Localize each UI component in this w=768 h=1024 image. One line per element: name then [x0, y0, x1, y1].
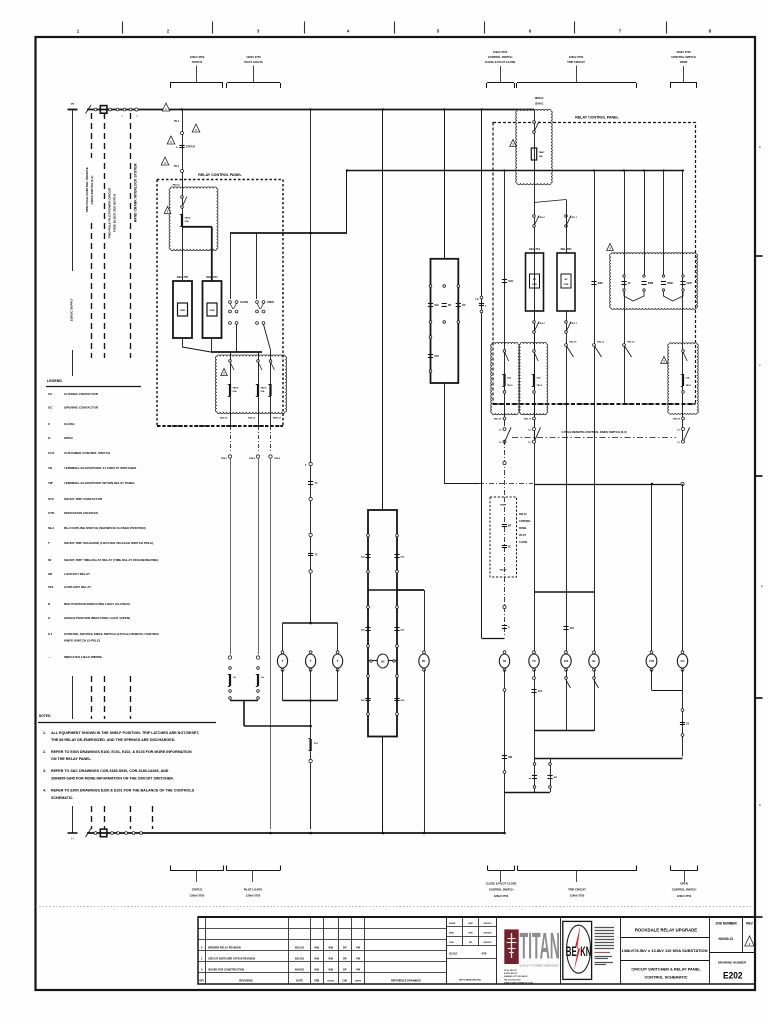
- legend underline: [46, 386, 141, 388]
- svg-text:138kV/78.5kV x 13.8kV 110 MVA: 138kV/78.5kV x 13.8kV 110 MVA SUBSTATION: [622, 949, 708, 953]
- capacitor TC lower: [308, 553, 313, 555]
- TITAN address lines: [504, 970, 533, 985]
- svg-text:DSGN: DSGN: [328, 980, 335, 982]
- svg-text:CTR: CTR: [48, 511, 55, 515]
- svg-text:TC: TC: [532, 659, 536, 663]
- coil blob upper left panel: [169, 187, 218, 251]
- rail y484 solid: [534, 484, 683, 486]
- svg-text:TERMINAL BLOCK/POINT WITHIN RE: TERMINAL BLOCK/POINT WITHIN RELAY PANEL: [64, 481, 135, 485]
- svg-text:10A: 10A: [536, 376, 540, 379]
- svg-text:INDICATES FIELD WIRING: INDICATES FIELD WIRING: [64, 655, 103, 659]
- svg-text:43X: 43X: [564, 659, 569, 663]
- circle blob A: [503, 391, 506, 394]
- fuse TB1/4 10A upper: [181, 214, 183, 226]
- svg-text:CC: CC: [680, 659, 684, 663]
- bus negative y833: [87, 832, 505, 834]
- relay coil RL: [423, 651, 426, 654]
- CCS contact left top: [429, 285, 432, 288]
- junction dots rail y170: [346, 169, 348, 171]
- warning triangle 4: [161, 157, 169, 165]
- svg-text:52/B: 52/B: [687, 282, 692, 285]
- wire drop close contact feed: [230, 233, 232, 299]
- svg-text:NOTES:: NOTES:: [39, 714, 51, 718]
- svg-text:TWO-POLE CONTROL SOURCE: TWO-POLE CONTROL SOURCE: [85, 167, 89, 212]
- svg-text:REFER TO EIXN DRAWINGS E100, E: REFER TO EIXN DRAWINGS E100, E101, E102,…: [51, 750, 192, 754]
- svg-text:ROCKDALE RELAY UPGRADE: ROCKDALE RELAY UPGRADE: [635, 928, 697, 933]
- wire operator box to bus: [382, 737, 384, 834]
- svg-text:TB-4: TB-4: [174, 165, 180, 168]
- svg-text:89M: 89M: [598, 282, 603, 285]
- svg-text:STATUS: STATUS: [192, 888, 203, 892]
- junction dots positive bus: [181, 108, 183, 110]
- contact pair OPEN: [256, 301, 259, 304]
- notes entries: [43, 731, 199, 800]
- terminal 52 down: [503, 689, 506, 692]
- junction x310 top bus: [309, 108, 311, 110]
- svg-text:120VAC: 120VAC: [535, 103, 544, 106]
- CCS contact right top: [457, 285, 460, 288]
- wire blob lower A: [230, 352, 232, 426]
- wire TC down: [534, 670, 536, 732]
- svg-text:OPEN: OPEN: [680, 60, 688, 64]
- contact PB1-C: [533, 215, 536, 218]
- warning triangle aux blob: [607, 244, 614, 251]
- rail y794: [505, 792, 551, 794]
- svg-text:WW: WW: [314, 946, 319, 949]
- svg-text:52X: 52X: [434, 304, 439, 307]
- svg-text:TRIP CIRCUIT: TRIP CIRCUIT: [567, 60, 585, 64]
- svg-text:REVISIONS: REVISIONS: [239, 979, 253, 982]
- svg-text:OPEN: OPEN: [680, 882, 688, 886]
- lamp right drop: [337, 623, 339, 653]
- svg-text:CIRCUIT SWITCHER STATUS REVISI: CIRCUIT SWITCHER STATUS REVISION: [208, 958, 255, 961]
- svg-text:-.-: -.-: [48, 655, 51, 659]
- circle blob C: [682, 391, 685, 394]
- terminal blob A right panel: [491, 342, 520, 414]
- svg-text:ON THE RELAY PANEL.: ON THE RELAY PANEL.: [51, 757, 92, 761]
- bracket OPEN: [670, 82, 697, 84]
- wire SEL751 right down: [534, 311, 536, 443]
- wire 43X down: [566, 670, 568, 732]
- power module SEL-751: [207, 303, 217, 316]
- fuse blob lower C: [269, 384, 271, 396]
- fuse drop right: [550, 759, 552, 792]
- terminal circle above bus: [309, 759, 312, 762]
- svg-text:T: T: [282, 659, 284, 663]
- terminal CC down2: [681, 734, 684, 737]
- contact blob C: [683, 352, 687, 361]
- capacitor TC upper: [308, 481, 313, 483]
- svg-text:OC: OC: [462, 304, 466, 307]
- contact LA local: [480, 296, 483, 299]
- svg-text:62: 62: [48, 558, 52, 562]
- warning triangle in blob: [164, 207, 171, 214]
- svg-text:52X: 52X: [48, 585, 53, 589]
- warning triangle lower blob: [221, 369, 228, 376]
- BEKN address text: [595, 928, 615, 949]
- aux contact 52 col1: [623, 275, 625, 277]
- svg-text:BM: BM: [508, 756, 512, 759]
- svg-text:DSGN: DSGN: [449, 923, 456, 925]
- bottom bracket OPEN: [671, 870, 698, 872]
- bracket STATUS: [170, 82, 223, 84]
- svg-text:CCS: CCS: [48, 451, 54, 455]
- knife TB3-12: [623, 344, 626, 347]
- wire link PB to SEL787: [534, 200, 566, 203]
- svg-text:120kV 3750: 120kV 3750: [246, 55, 261, 59]
- svg-text:PWR: PWR: [564, 284, 569, 286]
- contact SL down: [593, 677, 596, 680]
- svg-text:TB3-11: TB3-11: [597, 342, 605, 344]
- CCS circle right: [457, 321, 460, 324]
- svg-text:52: 52: [503, 659, 507, 663]
- svg-text:TC: TC: [314, 482, 317, 485]
- svg-text:TB1/3: TB1/3: [537, 385, 543, 387]
- svg-text:(-): (-): [71, 838, 73, 840]
- svg-text:TB3-10: TB3-10: [569, 342, 577, 344]
- wire transformer primary: [534, 110, 536, 444]
- svg-text:10A: 10A: [507, 376, 511, 379]
- svg-text:APPD: APPD: [355, 979, 361, 982]
- logo BEKN red lightning bolt: [574, 925, 581, 972]
- svg-text:TB-1: TB-1: [174, 121, 180, 123]
- svg-text:TB1/4: TB1/4: [260, 386, 267, 389]
- svg-text:3C: 3C: [508, 546, 511, 549]
- wire CC down: [682, 670, 684, 757]
- wire field C below panel: [270, 426, 272, 453]
- lamp T red: [281, 651, 284, 654]
- power module SEL-751 right: [530, 274, 540, 288]
- svg-text:RL: RL: [422, 659, 426, 663]
- scan artifact dotted line: [36, 906, 754, 908]
- svg-text:PB1-T: PB1-T: [571, 323, 578, 325]
- svg-text:09/10/21: 09/10/21: [483, 933, 492, 935]
- capacitor 39: [502, 545, 507, 547]
- CCS cap right: [456, 303, 461, 305]
- CCS cap mid: [442, 303, 447, 305]
- svg-text:5: 5: [137, 116, 138, 118]
- svg-text:OPEN: OPEN: [64, 436, 73, 440]
- svg-text:TB1/4: TB1/4: [232, 386, 239, 389]
- svg-text:10A: 10A: [260, 390, 264, 393]
- terminal circle pole A: [503, 461, 506, 464]
- svg-text:N0030-21: N0030-21: [719, 937, 734, 941]
- svg-text:TB4-4: TB4-4: [249, 457, 256, 460]
- rail y756 bottom right: [535, 758, 683, 760]
- wire label stem PILOT LIGHTS: [253, 66, 255, 83]
- svg-text:CLOSE & PILOT CLOSE: CLOSE & PILOT CLOSE: [485, 60, 516, 64]
- wire SEL-751 out: [211, 338, 213, 352]
- bus positive y109: [87, 109, 534, 111]
- divider rev cell: [742, 917, 744, 952]
- svg-text:1A: 1A: [233, 676, 236, 679]
- junction x310 bus: [309, 832, 312, 835]
- terminal circle field C: [269, 455, 272, 458]
- fuse blob C: [682, 374, 684, 386]
- svg-text:RELAY CONTROL PANEL: RELAY CONTROL PANEL: [575, 116, 619, 120]
- svg-text:HAND CRANK INTERLOCK SYSTEM: HAND CRANK INTERLOCK SYSTEM: [134, 164, 138, 223]
- svg-text:KNIFE SWITCH (6-1): KNIFE SWITCH (6-1): [90, 176, 94, 205]
- wire aux 52 drop: [644, 171, 646, 278]
- power module SEL-787 right: [561, 274, 571, 288]
- contact below SEL787: [565, 321, 568, 324]
- fuse blob lower B: [257, 384, 259, 396]
- title block outer: [198, 917, 755, 984]
- wire CCS out: [444, 383, 446, 484]
- svg-text:ALL EQUIPMENT SHOWN IN THE SHE: ALL EQUIPMENT SHOWN IN THE SHELF POSITIO…: [51, 731, 199, 735]
- svg-text:SEL-787: SEL-787: [177, 275, 189, 279]
- fuse in transformer: [531, 148, 536, 160]
- svg-text:120kV 3750: 120kV 3750: [569, 55, 584, 59]
- svg-text:OPERATION COUNTER: OPERATION COUNTER: [64, 511, 99, 515]
- svg-text:TB4-10: TB4-10: [220, 417, 228, 420]
- svg-text:GREEN POSITION INDICATING LIGH: GREEN POSITION INDICATING LIGHT (OPEN): [64, 616, 130, 620]
- wire drop x383: [382, 110, 384, 511]
- svg-text:09/13/21: 09/13/21: [295, 958, 305, 961]
- dash-dot tie line knife 6-2: [512, 437, 676, 439]
- wire drop x481 local: [481, 110, 483, 639]
- svg-text:CHD: CHD: [449, 942, 454, 944]
- svg-text:REFER TO S&C DRAWINGS COR-3185: REFER TO S&C DRAWINGS COR-3185-S549, COR…: [51, 769, 169, 773]
- junction lamp rail top: [309, 622, 312, 625]
- terminal blob C right panel: [668, 343, 699, 415]
- svg-text:PWR: PWR: [180, 310, 186, 312]
- svg-text:09/10/21: 09/10/21: [483, 923, 492, 925]
- svg-text:WW: WW: [328, 958, 333, 961]
- contact lower right column: [396, 675, 399, 678]
- wire in coil blob: [182, 188, 184, 281]
- contact pair CLOSE: [229, 301, 232, 304]
- coil 52 close: [503, 651, 506, 654]
- svg-text:120kV 3750: 120kV 3750: [494, 894, 509, 898]
- svg-text:SHUNT-TRIP SOLENOID (LOCATED O: SHUNT-TRIP SOLENOID (LOCATED ON EACH SWI…: [64, 541, 153, 545]
- svg-text:SEL-751: SEL-751: [206, 275, 218, 279]
- wire 43X drop: [566, 592, 568, 653]
- svg-text:TC: TC: [314, 554, 317, 557]
- capacitor 52A: [531, 689, 536, 691]
- CCS circle mid: [443, 321, 446, 324]
- wire open out diagonal: [264, 325, 271, 351]
- svg-text:CONTROL: CONTROL: [519, 520, 531, 523]
- svg-text:52C: 52C: [401, 700, 405, 702]
- svg-text:120kV 3750: 120kV 3750: [570, 894, 585, 898]
- junction negative bus end: [503, 832, 506, 835]
- svg-text:TB1/3: TB1/3: [507, 385, 513, 387]
- warning triangle 2: [192, 124, 200, 132]
- zone tick title row: [756, 916, 763, 918]
- wire CHR down: [651, 670, 653, 691]
- svg-text:DR: DR: [343, 946, 347, 949]
- svg-text:TRIP CIRCUIT: TRIP CIRCUIT: [568, 888, 586, 892]
- svg-text:T: T: [337, 659, 339, 663]
- contact blob lower A: [230, 362, 234, 370]
- svg-text:DR: DR: [343, 969, 347, 972]
- svg-text:1.: 1.: [43, 731, 46, 735]
- terminal TC down: [533, 677, 536, 680]
- coil SL: [593, 651, 596, 654]
- svg-text:10A: 10A: [184, 220, 188, 223]
- field wiring dash-dot to knife: [479, 483, 533, 485]
- wire fuse pair down: [243, 701, 245, 727]
- svg-text:LA: LA: [475, 298, 478, 301]
- terminal circles on positive bus: [94, 108, 97, 111]
- aux contact col3: [662, 275, 664, 277]
- svg-text:SCHEMATIC.: SCHEMATIC.: [51, 796, 73, 800]
- junction operator bus: [382, 832, 385, 835]
- coil blob lower left panel: [215, 355, 286, 414]
- svg-text:52C: 52C: [361, 630, 365, 632]
- operator mechanism box: [368, 510, 397, 737]
- svg-text:TB55-11: TB55-11: [273, 418, 282, 420]
- project cell line 1: [620, 937, 710, 939]
- svg-text:MT: MT: [508, 525, 512, 528]
- lamp right bottom wire: [337, 670, 339, 701]
- svg-text:BREWER RELAY REVISION: BREWER RELAY REVISION: [208, 946, 241, 949]
- svg-text:ISSUED FOR CONSTRUCTION: ISSUED FOR CONSTRUCTION: [208, 969, 244, 972]
- svg-text:08/31/21: 08/31/21: [295, 946, 305, 949]
- svg-text:PB1-T: PB1-T: [571, 217, 578, 219]
- CCS circle left bottom: [429, 370, 432, 373]
- svg-text:PB1-C: PB1-C: [539, 323, 546, 325]
- CCS circles left: [429, 321, 432, 324]
- capacitor 89M: [591, 281, 596, 283]
- dc supply stub segments: [72, 676, 74, 719]
- svg-text:OPEN: OPEN: [267, 301, 274, 304]
- svg-text:SHUNT-TRIP TIME-DELAY RELAY (T: SHUNT-TRIP TIME-DELAY RELAY (TIME DELAY …: [64, 558, 158, 562]
- battery negative terminal: [68, 832, 78, 834]
- relay control panel left dashed box: [157, 180, 283, 427]
- logo TITAN mark: [504, 929, 518, 964]
- svg-text:120kV 3750: 120kV 3750: [677, 894, 692, 898]
- svg-text:OPENING CONTACTOR: OPENING CONTACTOR: [64, 406, 99, 410]
- svg-text:T: T: [310, 659, 312, 663]
- contact upper left column: [367, 534, 370, 537]
- terminal circles on negative bus: [94, 832, 97, 835]
- svg-text:PILOT LIGHTS: PILOT LIGHTS: [244, 60, 263, 64]
- svg-text:DR: DR: [343, 958, 347, 961]
- svg-text:4.: 4.: [43, 789, 46, 793]
- bracket PILOT LIGHTS: [227, 82, 280, 84]
- svg-text:RELAY: RELAY: [519, 513, 527, 516]
- wire CC drop: [682, 484, 684, 653]
- svg-text:FUSE BLOCK SEE NOTE-8: FUSE BLOCK SEE NOTE-8: [113, 194, 117, 233]
- rail y170: [347, 170, 683, 172]
- svg-text:NTS: NTS: [482, 953, 487, 956]
- warning triangle 1 top: [162, 103, 170, 111]
- svg-text:THE 86 RELAY DE-ENERGIZED, AND: THE 86 RELAY DE-ENERGIZED, AND THE SPRIN…: [51, 738, 175, 742]
- wire riser x347: [346, 171, 348, 234]
- aux contact col4: [682, 275, 684, 277]
- svg-text:QUALITY POWER SERVICES: QUALITY POWER SERVICES: [520, 964, 559, 968]
- contact PB1-T: [565, 215, 568, 218]
- svg-text:3984895-S845 FOR MORE INFORMAT: 3984895-S845 FOR MORE INFORMATION ON THE…: [51, 777, 174, 781]
- svg-text:TB4-16: TB4-16: [499, 569, 507, 572]
- svg-text:25 W. 3RD ST: 25 W. 3RD ST: [504, 970, 518, 972]
- svg-text:SEL-751: SEL-751: [529, 247, 540, 251]
- svg-text:DATE: DATE: [296, 979, 303, 982]
- divider project cell: [620, 917, 622, 984]
- customer control switch box: [431, 259, 459, 383]
- svg-text:CLOSE: CLOSE: [519, 541, 528, 544]
- svg-text:SL: SL: [592, 659, 596, 663]
- svg-text:10A: 10A: [685, 376, 689, 379]
- junction RL bus: [423, 832, 426, 835]
- warning triangle transformer: [510, 140, 517, 147]
- svg-text:PWR: PWR: [532, 284, 537, 286]
- fuse element left: [533, 763, 536, 766]
- svg-text:52C: 52C: [361, 700, 365, 702]
- wire label stem OPEN: [683, 66, 685, 83]
- svg-text:52C: 52C: [570, 627, 575, 630]
- svg-text:STATUS: STATUS: [186, 146, 196, 149]
- svg-text:120kV 3750: 120kV 3750: [493, 50, 508, 54]
- svg-text:52C: 52C: [401, 630, 405, 632]
- rail right panel continues: [0, 0, 1, 1]
- svg-text:WW: WW: [328, 969, 333, 972]
- svg-text:TB4-13: TB4-13: [673, 418, 681, 421]
- svg-text:120kV 3750: 120kV 3750: [246, 894, 261, 898]
- capacitor 52C right panel: [502, 279, 507, 281]
- svg-text:CLOSE: CLOSE: [64, 422, 75, 426]
- svg-text:CIRCUIT SWITCHER & RELAY PANEL: CIRCUIT SWITCHER & RELAY PANEL: [631, 967, 701, 972]
- wire SL drop: [594, 592, 596, 653]
- svg-text:TB4-1: TB4-1: [221, 457, 228, 460]
- svg-text:CONTROL SWITCH: CONTROL SWITCH: [672, 888, 697, 892]
- field wire pole A down: [504, 440, 506, 497]
- warning triangle blob C: [661, 357, 668, 364]
- fuse lamp branch B: [256, 656, 259, 659]
- wire CHR drop: [651, 484, 653, 653]
- svg-text:TEL 816 555 0100: TEL 816 555 0100: [504, 980, 521, 982]
- rail fuse pair bottom: [230, 700, 258, 702]
- svg-text:SHUNT-TRIP CONTACTOR: SHUNT-TRIP CONTACTOR: [64, 497, 103, 501]
- dashed wire C interlock: [130, 113, 132, 358]
- bracket CLOSE: [487, 82, 514, 84]
- relay coil HC: [368, 660, 377, 662]
- wire to negative bus end: [504, 794, 506, 833]
- svg-text:PWR: PWR: [209, 310, 215, 312]
- capacitor BM: [502, 755, 507, 757]
- wire bend to coil 52: [482, 638, 505, 640]
- junction y484 CHR: [651, 483, 654, 486]
- BEKN address text lower: [595, 952, 611, 954]
- rail y233: [230, 232, 347, 234]
- ruler ticks top: [123, 22, 667, 34]
- svg-text:KN: KN: [580, 944, 591, 959]
- field wire pilot box down: [504, 577, 506, 636]
- rail y726 to lamp node: [244, 725, 311, 727]
- fuse blob A: [503, 374, 505, 386]
- fuse element right: [549, 763, 552, 766]
- fuse lamp branch A: [228, 656, 231, 659]
- capacitor RCS: [502, 524, 507, 526]
- bottom bracket STATUS: [170, 870, 224, 872]
- terminal CC down: [681, 709, 684, 712]
- svg-text:120kV 3750: 120kV 3750: [190, 894, 205, 898]
- fuse drop left: [534, 731, 536, 792]
- svg-text:TB4/7: TB4/7: [539, 151, 546, 154]
- dashed wire D interlock stub: [152, 806, 154, 829]
- ruler numbers top: [77, 29, 712, 34]
- svg-text:6B: 6B: [448, 304, 451, 307]
- coil 43X: [565, 651, 568, 654]
- rotated label TWO-POLE CONTROL SOURCE KNIFE SWITCH 6-1: [84, 158, 95, 222]
- wire TB3-12: [624, 171, 626, 405]
- contact in coil blob: [181, 196, 184, 199]
- capacitor b pilot: [502, 625, 507, 627]
- contact blob lower B: [258, 362, 262, 370]
- rail y352: [211, 351, 262, 353]
